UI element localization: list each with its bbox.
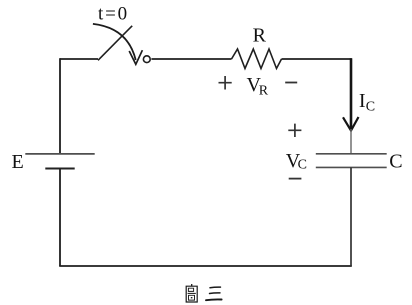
label minus sign of VR <box>285 82 297 84</box>
svg-text:C: C <box>298 157 307 172</box>
switch S blade <box>98 26 132 61</box>
switch arc arrowhead <box>129 50 142 64</box>
wire switch contact to resistor <box>151 58 231 60</box>
wire capacitor bottom plate to bottom-right corner <box>350 167 352 266</box>
caption character SAN middle stroke <box>210 292 221 295</box>
current arrow IC open arrowhead <box>343 117 359 131</box>
switch contact circle <box>143 56 150 63</box>
resistor R zigzag <box>232 49 282 69</box>
svg-text:E: E <box>12 151 24 173</box>
wire arrow tip to capacitor top plate <box>350 129 352 154</box>
svg-text:I: I <box>359 90 366 112</box>
svg-text:t=0: t=0 <box>98 3 129 24</box>
wire left vertical lower (battery to bottom-left corner) <box>59 169 61 267</box>
caption character TU inner bottom dot <box>191 297 193 298</box>
switch closing motion arc <box>93 24 136 60</box>
caption character TU inner bottom box <box>189 295 195 300</box>
label plus sign of VC <box>288 124 301 137</box>
svg-text:R: R <box>259 83 269 98</box>
battery E short negative plate <box>45 168 74 170</box>
current arrow IC shaft on right wire <box>350 58 353 129</box>
wire resistor to top-right corner <box>282 58 352 60</box>
label minus sign of VC <box>289 178 302 180</box>
caption character SAN bottom stroke <box>206 298 222 301</box>
wire left vertical upper (top-left corner to battery) <box>59 58 61 154</box>
battery E long positive plate <box>25 153 94 155</box>
capacitor C top plate <box>316 153 387 155</box>
caption character TU top tick <box>191 284 193 286</box>
caption character SAN (three) top stroke <box>210 286 221 289</box>
caption character TU inner top mouth <box>188 288 193 291</box>
svg-text:C: C <box>389 150 402 172</box>
wire top-left horizontal (corner to switch blade) <box>60 58 98 60</box>
label plus sign of VR <box>219 76 232 90</box>
wire bottom horizontal <box>59 265 352 267</box>
svg-text:R: R <box>253 25 267 47</box>
capacitor C bottom plate <box>316 166 387 168</box>
svg-text:C: C <box>366 100 375 115</box>
caption character TU (figure) outer box <box>186 286 197 302</box>
caption character TU middle bar <box>188 292 196 294</box>
